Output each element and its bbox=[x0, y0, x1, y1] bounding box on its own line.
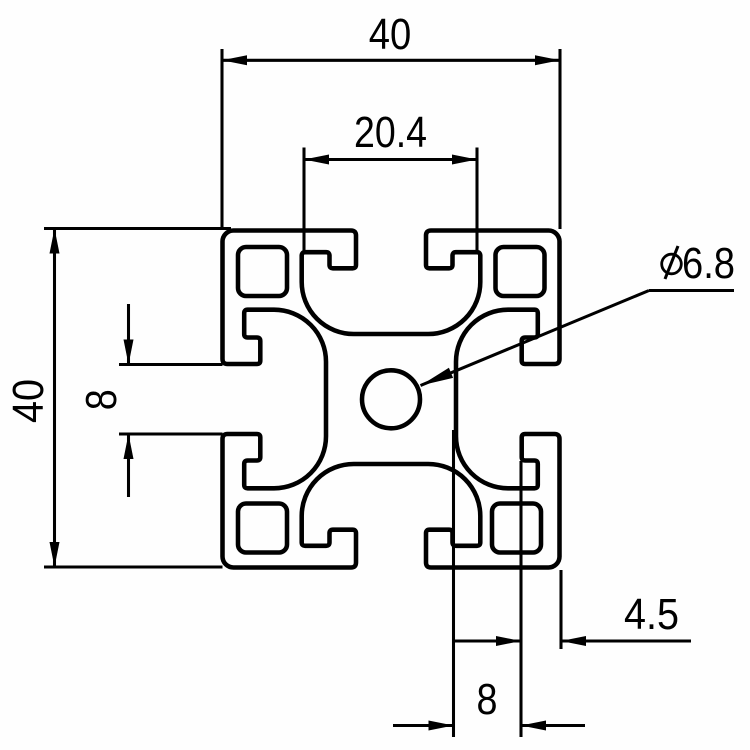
svg-text:8: 8 bbox=[477, 676, 498, 724]
svg-text:20.4: 20.4 bbox=[354, 109, 427, 157]
svg-text:8: 8 bbox=[78, 389, 126, 410]
svg-text:4.5: 4.5 bbox=[624, 591, 679, 639]
svg-text:40: 40 bbox=[369, 11, 412, 59]
svg-text:6.8: 6.8 bbox=[682, 240, 735, 288]
svg-text:40: 40 bbox=[5, 379, 53, 423]
